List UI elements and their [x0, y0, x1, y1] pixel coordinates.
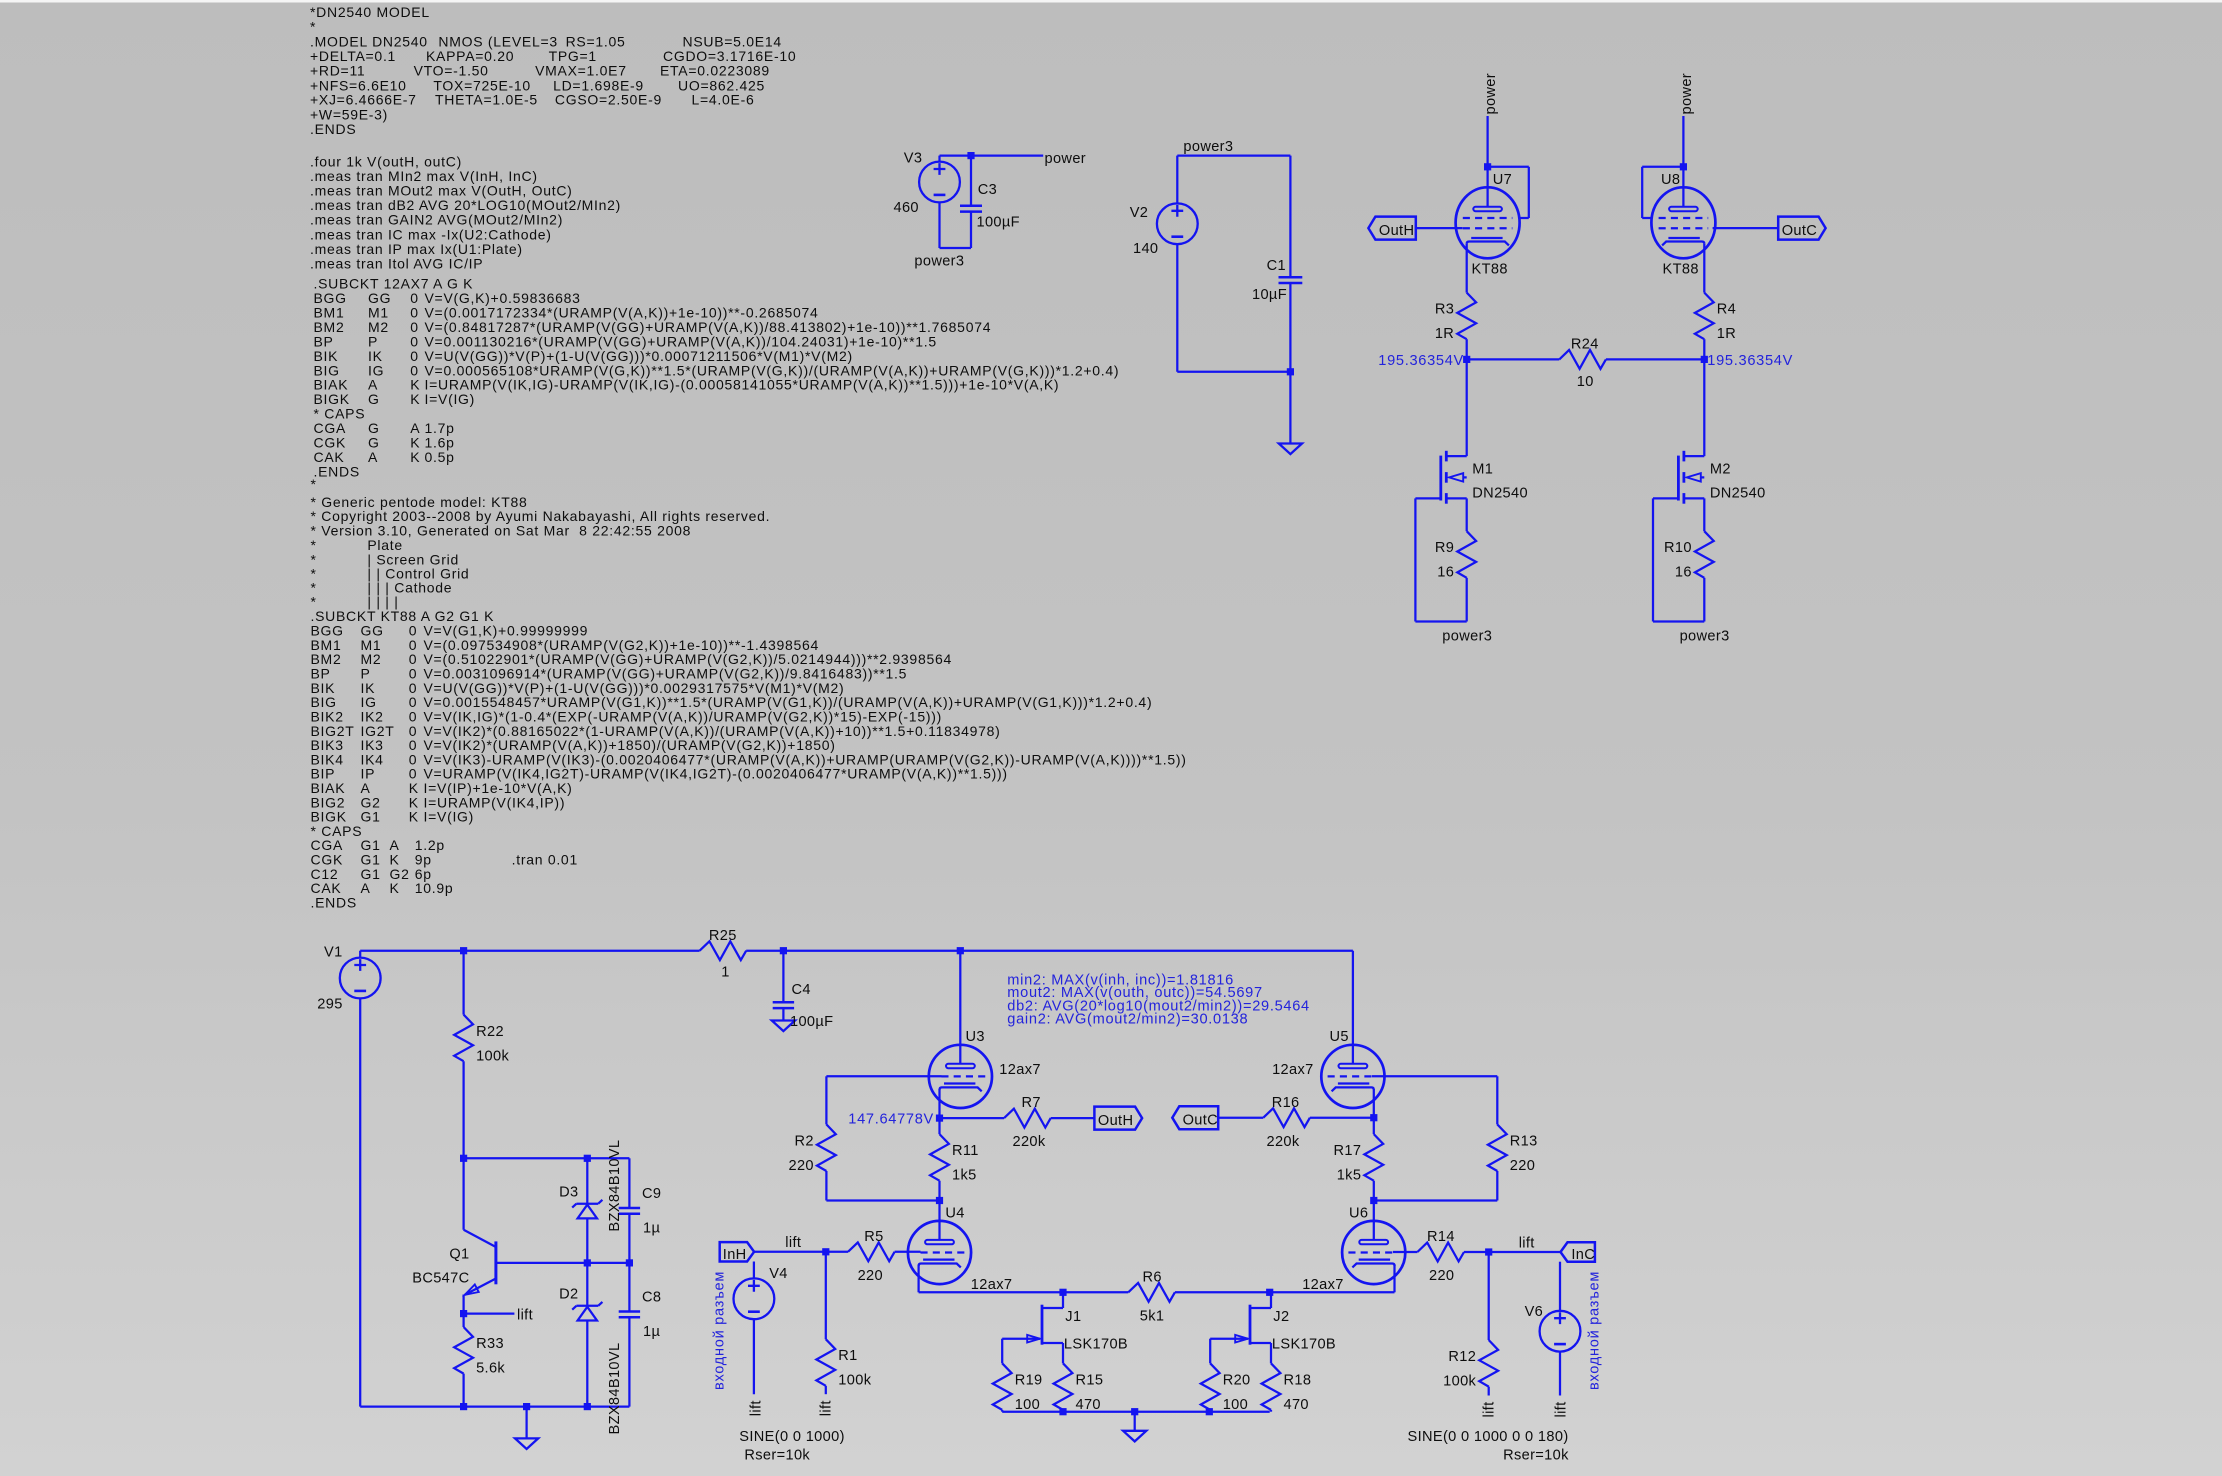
- tube U7 KT88 cathode: [1471, 237, 1502, 239]
- mosfet M1 DN2540 source: [1446, 497, 1466, 499]
- svg-text:SINE(0 0 1000): SINE(0 0 1000): [739, 1429, 845, 1445]
- resistor R33: [454, 1327, 473, 1374]
- wire C1 top lead: [1289, 156, 1291, 278]
- svg-text:460: 460: [894, 200, 919, 216]
- wire R20 to rail: [1209, 1410, 1211, 1412]
- wire C3 bottom lead: [970, 212, 972, 248]
- wire V1 top lead: [359, 951, 361, 958]
- junction lift node: [460, 1310, 467, 1317]
- tube U8 KT88: [1651, 187, 1715, 258]
- svg-text:0.5p: 0.5p: [425, 449, 455, 465]
- svg-text:NMOS (LEVEL=3: NMOS (LEVEL=3: [438, 34, 557, 50]
- svg-text:U3: U3: [966, 1029, 985, 1045]
- svg-text:220: 220: [1429, 1268, 1454, 1284]
- svg-text:1µ: 1µ: [643, 1220, 660, 1236]
- mosfet M1 DN2540 arrow: [1449, 473, 1463, 481]
- svg-text:D2: D2: [559, 1287, 578, 1303]
- wire V4 bottom: [753, 1319, 755, 1394]
- svg-text:R19: R19: [1015, 1372, 1043, 1388]
- port flag OutC: [1172, 1106, 1218, 1129]
- mosfet M1 DN2540 gate bar: [1439, 456, 1442, 501]
- jfet J2 LSK170B source: [1250, 1342, 1271, 1344]
- zener diode D2: [598, 1302, 602, 1306]
- svg-text:gain2: AVG(mout2/min2)=30.0138: gain2: AVG(mout2/min2)=30.0138: [1007, 1012, 1248, 1028]
- mosfet M1 DN2540 drain: [1446, 455, 1466, 457]
- svg-text:100: 100: [1015, 1397, 1040, 1413]
- svg-text:THETA=1.0E-5: THETA=1.0E-5: [435, 92, 538, 108]
- wire R19 to rail: [1001, 1410, 1003, 1412]
- ground (J rail): [1123, 1431, 1146, 1442]
- voltage source V3 plus: [934, 163, 946, 175]
- junction R22/Q1/D3: [460, 1155, 467, 1162]
- tube U4 12ax7 cathode: [923, 1258, 954, 1260]
- svg-text:KT88: KT88: [1663, 262, 1699, 278]
- wire U3 plate lead: [959, 951, 961, 1064]
- svg-text:OutC: OutC: [1782, 223, 1817, 239]
- junction R11/U4 plate: [936, 1197, 943, 1204]
- svg-text:V3: V3: [904, 151, 923, 167]
- wire top rail R25 to U5: [746, 950, 1353, 952]
- wire D2 bottom lead: [586, 1321, 588, 1407]
- wire U4 cathode to J1: [919, 1291, 1063, 1293]
- svg-text:12ax7: 12ax7: [971, 1277, 1013, 1293]
- wire V3 top: [938, 156, 940, 162]
- mosfet M1 DN2540 gate lead: [1415, 497, 1440, 499]
- port flag OutC (KT88): [1778, 217, 1825, 240]
- wire V2 bottom lead: [1176, 244, 1178, 372]
- wire M2 source to R10: [1703, 498, 1705, 531]
- mosfet M2 DN2540 drain: [1684, 455, 1704, 457]
- svg-text:входной разъем: входной разъем: [1587, 1271, 1603, 1390]
- svg-text:NSUB=5.0E14: NSUB=5.0E14: [683, 34, 782, 50]
- svg-text:R4: R4: [1717, 302, 1736, 318]
- wire J1 source down: [1062, 1343, 1064, 1363]
- tube U3 12ax7 grid: [941, 1075, 985, 1077]
- svg-text:100µF: 100µF: [790, 1014, 833, 1030]
- wire R18 to rail: [1270, 1410, 1272, 1412]
- tube U7 KT88 control grid: [1463, 227, 1513, 229]
- svg-text:InH: InH: [723, 1247, 747, 1263]
- wire M1 bottom: [1415, 620, 1466, 622]
- svg-text:1R: 1R: [1717, 326, 1736, 342]
- svg-text:V=V(G1,K)+0.99999999: V=V(G1,K)+0.99999999: [424, 622, 589, 638]
- wire R22 to node: [462, 1061, 464, 1158]
- tube U6 12ax7 cathode2: [1352, 1264, 1394, 1268]
- zener diode D3 cathode bar: [576, 1203, 598, 1205]
- tube U8 KT88 control grid: [1659, 227, 1709, 229]
- svg-text:.tran 0.01: .tran 0.01: [512, 851, 578, 867]
- svg-text:V6: V6: [1525, 1304, 1544, 1320]
- wire R11 bottom: [938, 1181, 940, 1201]
- junction U8 plate: [1680, 163, 1687, 170]
- junction C1/V2: [1287, 368, 1294, 375]
- svg-text:220: 220: [858, 1268, 883, 1284]
- svg-text:OutH: OutH: [1379, 223, 1414, 239]
- svg-text:K: K: [409, 809, 419, 825]
- tube U8 KT88 screen grid: [1659, 217, 1709, 219]
- capacitor C3: [960, 206, 982, 212]
- junction lift/R1: [822, 1248, 829, 1255]
- wire C4 top lead: [782, 951, 784, 1003]
- svg-text:.meas tran MOut2 max V(OutH, O: .meas tran MOut2 max V(OutH, OutC): [310, 183, 573, 199]
- zener diode D3: [572, 1204, 576, 1208]
- zener diode D3: [598, 1200, 602, 1204]
- wire power to U8 plate: [1682, 116, 1684, 167]
- svg-text:A: A: [368, 449, 378, 465]
- svg-text:195.36354V: 195.36354V: [1378, 353, 1464, 369]
- wire node to R11: [938, 1118, 940, 1134]
- svg-text:D3: D3: [559, 1185, 578, 1201]
- wire R13 loop down: [1496, 1076, 1498, 1124]
- resistor R10: [1695, 531, 1714, 578]
- svg-text:100k: 100k: [1443, 1374, 1476, 1390]
- capacitor C8: [619, 1312, 640, 1318]
- svg-text:R11: R11: [952, 1143, 979, 1159]
- svg-text:R22: R22: [476, 1024, 504, 1040]
- zener diode D3 triangle: [578, 1205, 597, 1219]
- junction D3 top: [584, 1155, 591, 1162]
- svg-text:+XJ=6.4666E-7: +XJ=6.4666E-7: [310, 92, 417, 108]
- wire U4 cathode down: [917, 1265, 919, 1292]
- tube U8 KT88 cathode2: [1662, 242, 1704, 246]
- svg-text:J1: J1: [1065, 1309, 1081, 1325]
- port flag InC: [1561, 1242, 1595, 1261]
- svg-text:BGG: BGG: [311, 622, 344, 638]
- junction U3 cathode/OutH: [936, 1115, 943, 1122]
- resistor R13: [1488, 1124, 1507, 1171]
- wire InH to R5: [754, 1251, 848, 1253]
- resistor R3: [1457, 293, 1476, 340]
- svg-text:295: 295: [317, 997, 342, 1013]
- junction R33/rail: [460, 1403, 467, 1410]
- junction ground/rail: [523, 1403, 530, 1410]
- tube U4 12ax7: [908, 1221, 971, 1284]
- wire node to C9 top: [464, 1157, 630, 1159]
- svg-text:100k: 100k: [838, 1373, 871, 1389]
- resistor R19: [993, 1363, 1012, 1410]
- Q1 collector diagonal: [464, 1230, 496, 1247]
- wire V3 bottom lead: [938, 202, 940, 248]
- svg-text:12ax7: 12ax7: [999, 1062, 1041, 1078]
- svg-text:J2: J2: [1273, 1309, 1289, 1325]
- svg-text:Rser=10k: Rser=10k: [1503, 1448, 1569, 1464]
- resistor R5: [848, 1242, 895, 1261]
- svg-text:lift: lift: [785, 1235, 801, 1251]
- svg-text:I=URAMP(V(IK,IG)-URAMP(V(IK,IG: I=URAMP(V(IK,IG)-URAMP(V(IK,IG)-(0.00058…: [425, 377, 1060, 393]
- svg-text:lift: lift: [1482, 1402, 1498, 1418]
- wire U3 cathode to node: [938, 1089, 940, 1118]
- svg-text:470: 470: [1076, 1397, 1101, 1413]
- wire J2 drain up: [1270, 1292, 1272, 1308]
- svg-text:10.9p: 10.9p: [415, 880, 454, 896]
- svg-text:R13: R13: [1510, 1133, 1538, 1149]
- svg-text:.meas tran GAIN2 AVG(MOut2/MIn: .meas tran GAIN2 AVG(MOut2/MIn2): [310, 212, 563, 228]
- resistor R22: [454, 1015, 473, 1062]
- wire R2 loop down: [825, 1076, 827, 1124]
- wire R13 bottom: [1496, 1171, 1498, 1201]
- wire R2 bottom: [825, 1171, 827, 1201]
- svg-text:* Copyright 2003--2008 by Ayum: * Copyright 2003--2008 by Ayumi Nakabaya…: [311, 508, 771, 524]
- wire V6 bottom: [1559, 1352, 1561, 1396]
- svg-text:K: K: [390, 880, 400, 896]
- wire V3-C3 bottom: [940, 247, 972, 249]
- junction top rail/R22: [460, 947, 467, 954]
- svg-text:Rser=10k: Rser=10k: [744, 1448, 810, 1464]
- mosfet M2 DN2540 gate lead: [1653, 497, 1678, 499]
- tube U7 KT88: [1456, 187, 1520, 258]
- svg-text:R20: R20: [1223, 1372, 1251, 1388]
- wire C9 top lead: [628, 1158, 630, 1208]
- wire to R33: [462, 1314, 464, 1327]
- svg-text:LSK170B: LSK170B: [1272, 1337, 1336, 1353]
- voltage source V4: [734, 1278, 775, 1319]
- wire U7 g2 loop in: [1519, 217, 1528, 219]
- wire top rail to R25: [464, 950, 700, 952]
- wire R33 to rail: [462, 1374, 464, 1407]
- svg-text:M1: M1: [1472, 461, 1493, 477]
- wire R12 bottom: [1488, 1387, 1490, 1396]
- port flag OutH: [1094, 1107, 1142, 1130]
- wire U7 g2 loop top: [1488, 166, 1529, 168]
- wire R6 to J2: [1175, 1291, 1270, 1293]
- svg-text:power3: power3: [1680, 628, 1730, 644]
- resistor R14: [1417, 1243, 1464, 1262]
- svg-text:220: 220: [788, 1158, 813, 1174]
- wire Q1 base to zener mid: [496, 1262, 587, 1264]
- wire C3 top lead: [970, 156, 972, 206]
- svg-text:140: 140: [1133, 241, 1158, 257]
- svg-text:1k5: 1k5: [952, 1168, 977, 1184]
- svg-text:*: *: [311, 476, 317, 492]
- jfet J1 LSK170B gate arrow: [1027, 1335, 1040, 1343]
- svg-text:R24: R24: [1571, 336, 1599, 352]
- resistor R17: [1364, 1134, 1383, 1181]
- wire U7 cathode lead: [1466, 244, 1468, 293]
- wire R4 to node: [1703, 339, 1705, 359]
- svg-text:U5: U5: [1330, 1029, 1349, 1045]
- wire node to R24: [1467, 358, 1560, 360]
- wire R13 to U6 plate node: [1374, 1199, 1498, 1201]
- junction R15/rail: [1059, 1408, 1066, 1415]
- voltage source V1: [340, 958, 381, 999]
- svg-text:12ax7: 12ax7: [1272, 1062, 1314, 1078]
- jfet J1 LSK170B source: [1042, 1342, 1063, 1344]
- svg-text:M2: M2: [1710, 461, 1731, 477]
- node OutH-sense left: [1463, 356, 1470, 363]
- resistor R7: [1004, 1109, 1051, 1128]
- junction R17/U6 plate: [1370, 1197, 1377, 1204]
- svg-text:5.6k: 5.6k: [476, 1361, 505, 1377]
- svg-text:470: 470: [1284, 1397, 1309, 1413]
- wire U8 cathode lead: [1703, 244, 1705, 293]
- voltage source V4 plus: [748, 1280, 760, 1292]
- svg-text:DN2540: DN2540: [1710, 486, 1766, 502]
- wire J1 gate down: [1001, 1339, 1003, 1364]
- tube U6 12ax7 grid: [1348, 1251, 1392, 1253]
- resistor R2: [817, 1124, 836, 1171]
- svg-text:1R: 1R: [1435, 326, 1454, 342]
- svg-text:220k: 220k: [1267, 1134, 1300, 1150]
- wire M2 bottom: [1653, 620, 1704, 622]
- Q1 base bar: [494, 1241, 497, 1284]
- wire M1 source to R9: [1466, 498, 1468, 531]
- resistor R12: [1479, 1340, 1498, 1387]
- jfet J1 LSK170B drain: [1042, 1307, 1063, 1309]
- wire ground stub: [525, 1407, 527, 1439]
- svg-text:C8: C8: [642, 1289, 661, 1305]
- svg-text:U8: U8: [1661, 172, 1680, 188]
- wire U7 plate lead: [1486, 167, 1488, 207]
- capacitor C1: [1279, 277, 1303, 283]
- wire Q1 collector: [462, 1158, 464, 1229]
- tube U5 12ax7 grid: [1328, 1075, 1372, 1077]
- wire ground stub (J rail): [1134, 1412, 1136, 1431]
- svg-text:C4: C4: [792, 982, 811, 998]
- tube U7 KT88 screen grid: [1463, 217, 1513, 219]
- svg-text:DN2540: DN2540: [1472, 486, 1528, 502]
- junction lift/R12 (right): [1485, 1248, 1492, 1255]
- junction R20/rail: [1206, 1408, 1213, 1415]
- wire U6 grid to R14: [1393, 1251, 1418, 1253]
- svg-text:SINE(0 0 1000 0 0 180): SINE(0 0 1000 0 0 180): [1408, 1429, 1569, 1445]
- resistor R24: [1559, 350, 1606, 369]
- svg-text:R9: R9: [1435, 540, 1454, 556]
- tube U3 12ax7 cathode: [944, 1082, 975, 1084]
- svg-text:BZX84B10VL: BZX84B10VL: [607, 1343, 623, 1435]
- svg-text:lift: lift: [819, 1400, 835, 1416]
- wire R24 to node: [1606, 358, 1704, 360]
- svg-text:R17: R17: [1333, 1143, 1361, 1159]
- svg-text:R10: R10: [1664, 540, 1692, 556]
- svg-text:R25: R25: [709, 928, 737, 944]
- voltage source V2 plus: [1171, 205, 1183, 217]
- wire M1 gate down: [1414, 498, 1416, 621]
- wire C1 bottom lead: [1289, 283, 1291, 444]
- svg-text:K: K: [410, 449, 420, 465]
- tube U6 12ax7 cathode: [1359, 1258, 1390, 1260]
- wire R15 to rail: [1062, 1410, 1064, 1412]
- node OutC-sense right: [1701, 356, 1708, 363]
- svg-text:.ENDS: .ENDS: [311, 894, 357, 910]
- wire D3 bottom lead: [586, 1218, 588, 1263]
- wire V1 bottom down: [359, 998, 361, 1406]
- wire C8 bottom lead: [628, 1317, 630, 1406]
- wire J2 to U6 cathode: [1271, 1291, 1395, 1293]
- svg-text:KT88: KT88: [1472, 262, 1508, 278]
- voltage source V2: [1157, 203, 1198, 244]
- svg-text:L=4.0E-6: L=4.0E-6: [692, 92, 755, 108]
- wire R16 to node: [1310, 1117, 1374, 1119]
- mosfet M2 DN2540 gate bar: [1677, 456, 1680, 501]
- mosfet M2 DN2540 bulk: [1700, 476, 1704, 478]
- junction D3/D2: [584, 1259, 591, 1266]
- resistor R4: [1695, 293, 1714, 340]
- tube U4 12ax7 grid: [921, 1251, 965, 1253]
- junction U3 plate: [957, 947, 964, 954]
- svg-text:R1: R1: [838, 1348, 857, 1364]
- svg-text:входной разъем: входной разъем: [711, 1271, 727, 1390]
- svg-text:CGSO=2.50E-9: CGSO=2.50E-9: [555, 92, 662, 108]
- svg-text:100µF: 100µF: [977, 215, 1020, 231]
- svg-text:V2: V2: [1130, 205, 1149, 221]
- svg-text:R12: R12: [1448, 1349, 1476, 1365]
- voltage source V4 minus: [748, 1310, 760, 1313]
- svg-text:lift: lift: [1519, 1236, 1535, 1252]
- wire bottom rail (J1/J2): [1002, 1411, 1269, 1413]
- wire J2 source down: [1270, 1343, 1272, 1363]
- svg-text:100k: 100k: [476, 1048, 509, 1064]
- tube U5 12ax7 cathode: [1338, 1082, 1369, 1084]
- tube U3 12ax7 cathode2: [940, 1087, 982, 1091]
- wire R7 to OutH: [1051, 1117, 1095, 1119]
- wire C8 top lead: [628, 1263, 630, 1312]
- svg-text:Q1: Q1: [449, 1246, 469, 1262]
- svg-text:1µ: 1µ: [643, 1324, 660, 1340]
- svg-text:.ENDS: .ENDS: [310, 121, 356, 137]
- wire R10 to bottom: [1703, 578, 1705, 622]
- svg-text:R5: R5: [864, 1229, 883, 1245]
- port flag InH: [720, 1242, 754, 1261]
- wire R17 bottom: [1373, 1181, 1375, 1201]
- resistor R25: [700, 941, 747, 960]
- tube U7 KT88 cathode2: [1467, 242, 1509, 246]
- wire node to M2 drain: [1703, 359, 1705, 456]
- wire V2 loop bottom: [1177, 371, 1290, 373]
- wire lift stub: [464, 1312, 515, 1314]
- svg-text:+W=59E-3): +W=59E-3): [310, 106, 388, 122]
- svg-text:10: 10: [1577, 374, 1594, 390]
- wire Q1 emitter down: [462, 1295, 464, 1314]
- svg-text:lift: lift: [517, 1307, 533, 1323]
- wire U5 grid to R13 loop: [1372, 1075, 1497, 1077]
- wire V2 top lead: [1176, 156, 1178, 204]
- wire to R22: [462, 951, 464, 1015]
- svg-text:R14: R14: [1427, 1229, 1455, 1245]
- svg-text:0: 0: [409, 622, 418, 638]
- svg-text:R6: R6: [1143, 1270, 1162, 1286]
- resistor R18: [1262, 1363, 1281, 1410]
- junction C9/C8: [626, 1259, 633, 1266]
- junction C4: [780, 947, 787, 954]
- svg-text:R7: R7: [1022, 1095, 1041, 1111]
- junction U5 cathode/OutC: [1370, 1114, 1377, 1121]
- svg-text:power3: power3: [914, 253, 964, 269]
- Q1 emitter diagonal: [465, 1279, 496, 1295]
- mosfet M2 DN2540 source: [1684, 497, 1704, 499]
- ground (left rail): [515, 1438, 538, 1449]
- svg-text:R18: R18: [1284, 1372, 1312, 1388]
- svg-text:1k5: 1k5: [1337, 1168, 1362, 1184]
- port flag OutH (KT88): [1368, 217, 1415, 240]
- svg-text:R2: R2: [795, 1133, 814, 1149]
- resistor R20: [1201, 1363, 1220, 1410]
- jfet J2 LSK170B channel: [1249, 1305, 1252, 1345]
- resistor R16: [1263, 1108, 1310, 1127]
- wire R3 to node: [1466, 339, 1468, 359]
- junction V3/C3: [967, 152, 974, 159]
- svg-text:147.64778V: 147.64778V: [848, 1112, 934, 1128]
- junction gnd/rail: [1131, 1408, 1138, 1415]
- wire U7 g2 loop side: [1528, 167, 1530, 218]
- voltage source V3: [919, 162, 960, 203]
- voltage source V3 minus: [934, 194, 946, 197]
- voltage source V1 minus: [354, 990, 366, 993]
- svg-text:10µF: 10µF: [1252, 287, 1287, 303]
- wire zener mid to C9/C8: [587, 1262, 629, 1264]
- svg-text:U4: U4: [945, 1206, 964, 1222]
- svg-text:C9: C9: [642, 1186, 661, 1202]
- svg-text:R3: R3: [1435, 302, 1454, 318]
